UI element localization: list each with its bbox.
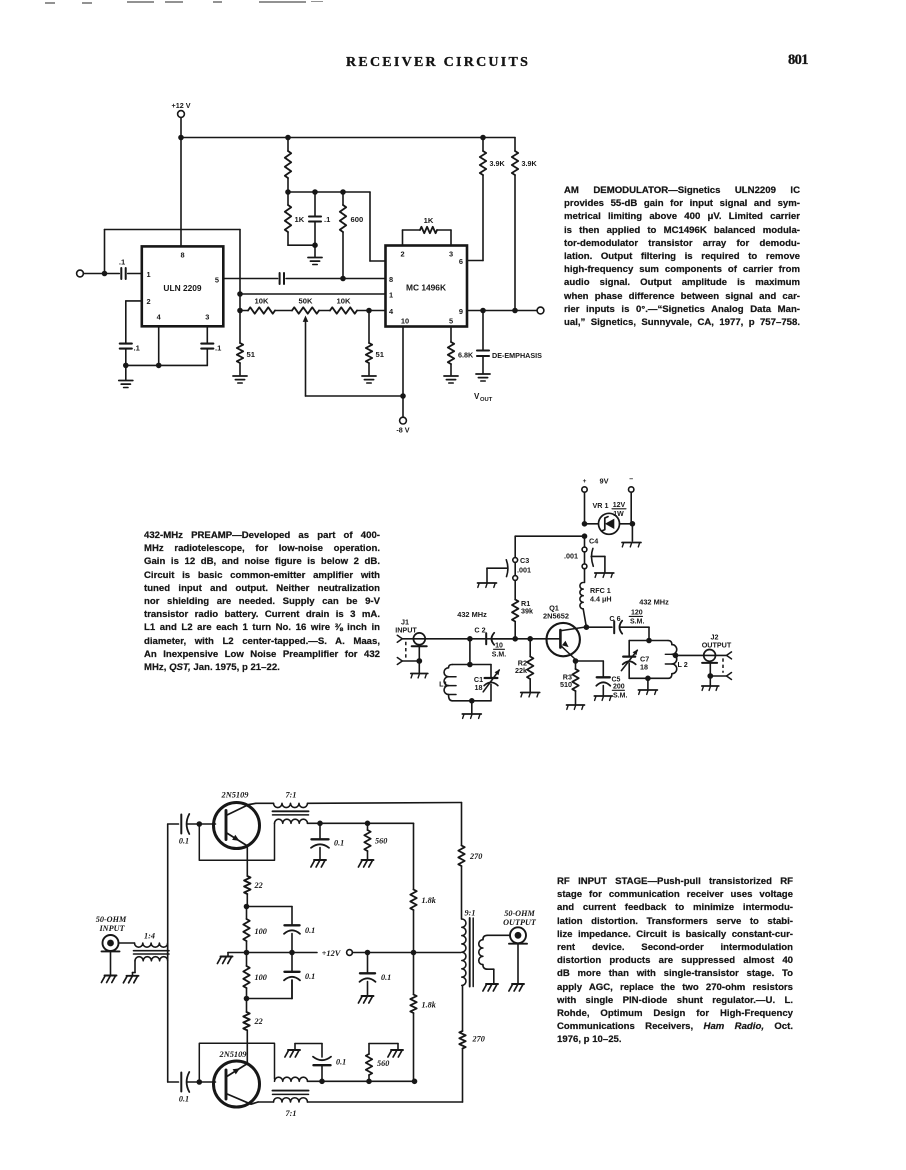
node: L1 tap [467, 636, 473, 642]
svg-text:6.8K: 6.8K [458, 351, 474, 360]
pin 2 label [147, 297, 151, 306]
svg-text:3.9K: 3.9K [490, 159, 506, 168]
svg-text:3.9K: 3.9K [522, 159, 538, 168]
wire: 1K/.1 bottom link [288, 244, 315, 246]
svg-text:8: 8 [389, 275, 393, 284]
inductor L2 [665, 641, 687, 679]
node: pin 4 junction [156, 363, 162, 369]
wire: input to T1 [119, 942, 135, 944]
wire+ground (bottom 560) [369, 1044, 398, 1050]
svg-text:OUTPUT: OUTPUT [702, 641, 732, 650]
svg-text:S.M.: S.M. [630, 619, 644, 626]
battery - terminal [629, 476, 634, 524]
svg-text:10: 10 [401, 317, 409, 326]
svg-text:432 MHz: 432 MHz [457, 610, 487, 619]
node: bypass bus left [123, 363, 129, 369]
node: bias mid left [244, 950, 250, 956]
wire: bottom feedback loop [199, 1043, 274, 1082]
ground (filter) [308, 245, 322, 264]
svg-text:100: 100 [255, 973, 267, 982]
svg-text:9:1: 9:1 [465, 909, 476, 918]
wire: mid to +12V label [292, 952, 317, 954]
label 432 MHz (input) [457, 610, 487, 619]
tank L1 frame bottom [452, 700, 491, 702]
svg-text:560: 560 [375, 837, 387, 846]
node: Q1 collector junction [584, 624, 590, 630]
page header [346, 56, 530, 70]
wire: bias bottom link [247, 980, 293, 999]
svg-text:C 6: C 6 [609, 614, 620, 623]
svg-text:510: 510 [560, 680, 572, 689]
svg-text:S.M.: S.M. [492, 652, 506, 659]
text caption: AM demodulator [564, 184, 800, 329]
capacitor .1 (pin 3) [201, 326, 222, 365]
resistor 100 (upper) [243, 907, 266, 953]
svg-text:7:1: 7:1 [286, 1109, 297, 1118]
svg-text:22: 22 [254, 881, 263, 890]
battery + terminal 9V [582, 477, 609, 524]
inductor RFC1 4.4uH [580, 569, 612, 627]
ground (R2) [521, 693, 540, 697]
transistor Q2 2N5109 (top) [214, 791, 260, 849]
svg-text:C 2: C 2 [474, 626, 485, 635]
transformer T4 core [470, 918, 474, 987]
wire: 22 to bias node [246, 894, 248, 907]
resistor 10K right [319, 297, 386, 314]
connector 50-OHM INPUT [96, 915, 127, 975]
svg-text:1W: 1W [613, 511, 624, 518]
wire: ULN pin 4 to bus [158, 326, 160, 365]
node: 560 tap (top) [365, 821, 371, 827]
capacitor .1 (pin 2 bypass) [120, 344, 141, 366]
wire: pin 9 output line [467, 310, 540, 312]
node: bias mid right [289, 950, 295, 956]
transistor Q1 2N5652 [543, 604, 586, 660]
svg-text:9: 9 [459, 307, 463, 316]
svg-text:100: 100 [255, 927, 267, 936]
transistor Q3 2N5109 (bottom) [214, 1050, 274, 1107]
wire: base to Q3 [199, 1081, 215, 1083]
ground (51 right) [362, 376, 376, 383]
resistor R2 22k [515, 639, 533, 692]
transformer T2 secondary [275, 819, 308, 823]
svg-text:2N5109: 2N5109 [221, 791, 250, 800]
capacitor C5 200 S.M. [596, 677, 627, 700]
transformer T2 7:1 primary [256, 791, 462, 808]
resistor 3.9K no.2 [512, 151, 538, 311]
svg-text:+12 V: +12 V [172, 101, 191, 110]
node: limiter filter top-left [285, 189, 291, 195]
node: L2 tap [673, 653, 679, 659]
terminal +12V [347, 950, 353, 956]
node: bias chain bottom [244, 996, 250, 1002]
svg-text:INPUT: INPUT [98, 924, 125, 933]
ground (C4) [591, 556, 614, 577]
wire: minus lead down [631, 524, 633, 541]
node: de-emphasis tap [480, 308, 486, 314]
wire: bottom emitter rise [246, 1030, 248, 1064]
node: tank top [467, 662, 473, 668]
pin 2 label [400, 250, 404, 259]
capacitor 0.1 (top collector bypass) [311, 823, 344, 859]
capacitor 0.1 (supply bypass) [360, 953, 392, 996]
svg-text:.001: .001 [517, 566, 531, 575]
resistor 560 (bottom) [366, 1044, 389, 1082]
resistor 1K (pins 2-3) [403, 216, 452, 246]
resistor 600 [340, 192, 363, 279]
resistor 10K left [240, 297, 292, 314]
resistor (unlabeled collector load) [285, 138, 291, 193]
variable capacitor C1 18 [474, 665, 500, 701]
wire: T1 to input rail [167, 943, 169, 961]
svg-text:S.M.: S.M. [613, 693, 627, 700]
wire+ground (bottom 0.1) [295, 1044, 322, 1050]
node: input junction [102, 271, 108, 277]
wire: top feedback loop (base to T2 secondary) [199, 823, 274, 860]
svg-text:-8 V: -8 V [396, 426, 409, 435]
transformer T4 9:1 primary [462, 909, 476, 986]
wire: L1 tap drop [469, 639, 471, 665]
node: rail to 3.9K no.1 [480, 135, 486, 141]
node: supply junction [582, 533, 588, 539]
feedthrough capacitor C3 .001 [506, 556, 531, 580]
transformer T3 7:1 secondary [275, 1077, 308, 1081]
wire: input feed-around over ULN2209 [105, 230, 241, 311]
ground (R3) [567, 705, 585, 709]
node: .1 bottom junction [312, 242, 318, 248]
svg-text:C3: C3 [520, 556, 529, 565]
node: 3.9K no.2 bottom [512, 308, 518, 314]
svg-text:.1: .1 [134, 344, 141, 353]
node: top base node [197, 821, 203, 827]
svg-text:.001: .001 [564, 552, 578, 561]
svg-text:.1: .1 [215, 344, 222, 353]
tank L1 frame top [452, 664, 491, 666]
wire: T2 secondary output line [308, 822, 414, 824]
pin 10 label [401, 317, 409, 326]
node: output tank ground tap [645, 676, 651, 682]
pin 5 label [449, 317, 453, 326]
svg-text:OUTPUT: OUTPUT [503, 918, 537, 927]
transformer T1 secondary [135, 957, 168, 973]
wire: top output to 1.8k [413, 823, 415, 889]
wire: bottom branch to C in [168, 1081, 179, 1083]
capacitor 0.1 (top input coupling) [179, 814, 199, 846]
node: rail to collector-load resistor [285, 135, 291, 141]
svg-text:VR 1: VR 1 [593, 501, 609, 510]
ground (top 0.1) [311, 860, 326, 867]
transformer T1 1:4 primary [135, 932, 168, 948]
svg-text:DE-EMPHASIS: DE-EMPHASIS [492, 351, 542, 360]
ground (top 560) [358, 860, 373, 867]
ground (6.8K) [444, 376, 458, 383]
resistor 51 right [366, 311, 385, 376]
svg-text:0.1: 0.1 [381, 973, 391, 982]
node: .1 top [312, 189, 318, 195]
input terminal [77, 270, 105, 277]
wire: C6 to output tank [648, 627, 650, 640]
ground (ULN bypass) [119, 365, 133, 387]
resistor R3 510 [560, 661, 579, 704]
wire: filter bus to MC1496K upper-left [370, 192, 386, 261]
wire: base line [425, 638, 560, 640]
svg-text:10K: 10K [337, 297, 351, 306]
wire: ULN pin 2 bypass [126, 301, 142, 343]
wire: 3.9K no.1 to pin 6 [467, 260, 483, 262]
wire: collector to C6 [586, 626, 612, 628]
svg-text:51: 51 [376, 350, 385, 359]
capacitor 0.1 (bottom input coupling) [179, 1072, 199, 1104]
transformer T3 core [273, 1091, 309, 1095]
svg-text:–: – [629, 476, 633, 483]
ground (J2) [702, 686, 719, 690]
svg-text:1K: 1K [295, 215, 305, 224]
resistor 1.8k (bottom) [410, 995, 436, 1014]
svg-text:L 2: L 2 [678, 660, 688, 669]
node: R2 top [527, 636, 533, 642]
page number 801 [788, 53, 808, 68]
output terminal [537, 307, 544, 314]
pin 8 label [180, 251, 184, 260]
wire: T3 secondary output line [308, 1080, 415, 1082]
resistor 100 (lower) [243, 953, 266, 999]
svg-text:8: 8 [180, 251, 184, 260]
capacitor (pin5-pin8 coupling) [280, 273, 386, 284]
inductor L1 [439, 665, 456, 701]
svg-text:6: 6 [459, 257, 463, 266]
node: 1.8k to output line (bottom) [412, 1079, 418, 1085]
resistor 270 (bottom) [459, 986, 484, 1102]
node: 600 bottom on pin8 line [340, 276, 346, 282]
label VOUT [474, 392, 493, 403]
wire: secondary to output [488, 934, 510, 936]
ground (T1 secondary) [123, 973, 138, 983]
pin 9 label [459, 307, 463, 316]
node: 600 top [340, 189, 346, 195]
svg-text:MC 1496K: MC 1496K [406, 283, 446, 293]
pin 4 label [389, 307, 394, 316]
power terminal +12V [172, 101, 191, 138]
node: VR1 right [630, 521, 636, 527]
svg-text:C5: C5 [612, 677, 621, 684]
capacitor C2 10 S.M. [474, 626, 515, 659]
feedthrough capacitor C4 .001 [564, 536, 598, 568]
ground (C5) [594, 696, 612, 700]
svg-text:4.4 μH: 4.4 μH [590, 595, 612, 604]
svg-text:1.8k: 1.8k [422, 1001, 437, 1010]
pin 4 label [157, 313, 162, 322]
svg-text:5: 5 [215, 276, 219, 285]
ground (T4 secondary) [483, 984, 498, 991]
ground (supply bypass) [358, 996, 373, 1003]
svg-text:10: 10 [495, 643, 503, 650]
wire: +12V rail [352, 952, 460, 954]
svg-text:50-OHM: 50-OHM [96, 915, 127, 924]
wire: top branch to C in [168, 823, 179, 825]
ground (input connector) [101, 976, 116, 983]
wire: 1.8k bottom drop [413, 1013, 415, 1082]
resistor 560 (top) [364, 823, 387, 859]
node: 0.1 tap (top) [317, 821, 323, 827]
svg-text:INPUT: INPUT [395, 626, 417, 635]
pin 6 label [459, 257, 463, 266]
wire: pin 1 line [240, 293, 386, 295]
capacitor .1 (limiter filter) [309, 192, 331, 245]
pin 1 label [389, 291, 393, 300]
ground (battery minus) [622, 543, 641, 547]
svg-text:7:1: 7:1 [286, 791, 297, 800]
scan artifact marks at page top [45, 2, 55, 4]
svg-text:OUT: OUT [480, 397, 493, 403]
svg-text:+: + [583, 478, 587, 485]
svg-text:ULN 2209: ULN 2209 [163, 283, 202, 293]
node: 560 tap (bottom) [366, 1079, 372, 1085]
node: 1.8k junction on rail [411, 950, 417, 956]
svg-text:270: 270 [469, 852, 482, 861]
wire: top emitter drop [246, 846, 248, 876]
svg-text:5: 5 [449, 317, 453, 326]
svg-text:3: 3 [205, 313, 209, 322]
node: 0.1 supply tap [365, 950, 371, 956]
svg-text:39k: 39k [521, 607, 533, 616]
svg-text:3: 3 [449, 250, 453, 259]
svg-text:0.1: 0.1 [305, 926, 315, 935]
tank frame bottom [629, 677, 668, 679]
capacitor .1 (input coupling) [105, 258, 142, 280]
capacitor 0.1 (upper bias) [284, 925, 315, 952]
ground (bias mid) [217, 957, 232, 964]
ground (bottom 560) [388, 1050, 403, 1057]
wire: rail to 1.8k (bottom) [413, 953, 415, 995]
resistor 22 (top emitter) [244, 876, 263, 894]
svg-text:2: 2 [400, 250, 404, 259]
svg-text:600: 600 [351, 215, 364, 224]
wire: 1.8k to +12V rail [413, 910, 415, 953]
wire: ULN pin5 to coupling cap [223, 278, 277, 280]
pot wiper arrow [303, 316, 309, 397]
ground (de-emphasis) [476, 374, 490, 381]
svg-text:50-OHM: 50-OHM [504, 909, 535, 918]
node: VR1 left [582, 521, 588, 527]
node: tank ground tap [469, 698, 475, 704]
svg-text:270: 270 [472, 1035, 485, 1044]
wire: +12V top rail [181, 137, 515, 139]
svg-text:22: 22 [254, 1017, 263, 1026]
svg-text:0.1: 0.1 [334, 839, 344, 848]
ground (output tank) [638, 678, 657, 694]
svg-text:L1: L1 [439, 680, 447, 689]
capacitor 0.1 (bottom collector bypass) [313, 1044, 346, 1082]
resistor 270 (top) [458, 803, 482, 920]
node: chain right junction [366, 308, 372, 314]
svg-text:1:4: 1:4 [144, 932, 155, 941]
svg-text:120: 120 [631, 610, 643, 617]
wire: bias mid bus [247, 952, 293, 954]
transformer T3 primary [274, 1098, 308, 1118]
node: Q1 emitter junction [573, 658, 579, 664]
wire: pin 10 to -8V [402, 327, 404, 397]
node: bottom base node [197, 1079, 203, 1085]
svg-text:18: 18 [475, 683, 483, 692]
ground (51 left) [233, 376, 247, 383]
svg-text:560: 560 [377, 1059, 389, 1068]
power terminal -8V [396, 396, 409, 435]
wire: pot wiper to -8V node [306, 395, 404, 397]
pin 3 label [449, 250, 453, 259]
svg-text:0.1: 0.1 [179, 1095, 189, 1104]
wire: bypass bottom bus [126, 364, 208, 366]
text caption: 432-MHz preamp [144, 529, 380, 674]
capacitor C6 120 S.M. [609, 610, 649, 634]
potentiometer 50K [292, 297, 319, 314]
resistor 1.8k (top) [410, 890, 436, 911]
svg-text:C4: C4 [589, 537, 598, 546]
svg-text:22k: 22k [515, 666, 527, 675]
svg-text:1: 1 [147, 270, 151, 279]
wire: base to Q2 [199, 823, 215, 825]
capacitor DE-EMPHASIS [477, 311, 542, 374]
ground (input tank) [462, 701, 481, 719]
svg-text:9V: 9V [599, 477, 608, 486]
pin 8 label [389, 275, 393, 284]
svg-text:18: 18 [640, 663, 648, 672]
svg-text:200: 200 [613, 684, 625, 691]
ground (C3) [478, 568, 507, 587]
svg-text:.1: .1 [324, 215, 331, 224]
resistor R1 39k [512, 580, 533, 638]
svg-text:1: 1 [389, 291, 393, 300]
ground (output connector) [509, 984, 524, 991]
node: output tank top [646, 638, 652, 644]
svg-text:12V: 12V [613, 502, 626, 509]
svg-text:432 MHz: 432 MHz [639, 598, 669, 607]
tank frame top [629, 640, 668, 642]
svg-text:1K: 1K [424, 216, 434, 225]
node: +12V rail junction [178, 135, 184, 141]
svg-text:2: 2 [147, 297, 151, 306]
variable capacitor C7 18 [621, 641, 649, 679]
svg-text:+12V: +12V [322, 949, 342, 958]
text caption: RF input stage [557, 875, 793, 1047]
wire: L2 tap to J2 [676, 654, 705, 656]
wire: T3 primary to right rail [308, 1101, 463, 1103]
svg-text:1.8k: 1.8k [422, 896, 437, 905]
ground (bottom 0.1) [285, 1050, 300, 1057]
svg-text:50K: 50K [299, 297, 313, 306]
node: feed to gain pot chain [237, 308, 243, 314]
resistor 1K (limiter) [285, 192, 305, 245]
connector J2 OUTPUT [702, 633, 732, 686]
wire: +12V to ULN2209 pin 8 [180, 138, 182, 247]
connector 50-OHM OUTPUT [503, 909, 537, 983]
IC ULN 2209 [142, 246, 224, 326]
resistor 6.8K [448, 327, 474, 376]
wire: filter top bus [288, 191, 370, 193]
svg-text:2N5109: 2N5109 [219, 1050, 248, 1059]
connector J1 INPUT [395, 618, 426, 673]
pin 5 label [215, 276, 219, 285]
transformer T2 core [273, 811, 309, 815]
IC MC 1496K [386, 246, 468, 327]
pin 1 label [147, 270, 151, 279]
pin 3 label [205, 313, 209, 322]
resistor 3.9K no.1 [480, 138, 506, 261]
node: feed to pin1 line [237, 291, 243, 297]
wire: bias top link [247, 907, 293, 926]
wire: emitter to C5 [576, 661, 604, 677]
node: -8V junction [400, 393, 406, 399]
wire: input rail vertical [167, 824, 169, 1082]
